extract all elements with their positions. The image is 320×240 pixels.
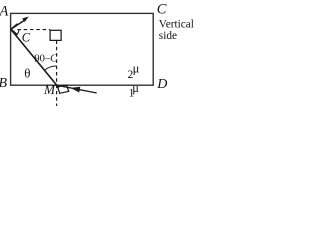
tilted right-angle square below M [58,85,69,93]
ray M to P inside slab, extended slightly past M [11,29,59,88]
svg-text:μ: μ [132,81,139,95]
svg-text:C: C [157,1,167,17]
svg-text:A: A [0,3,9,19]
svg-text:C: C [22,31,31,45]
svg-text:B: B [0,76,8,91]
reflected ray at P going up-right [11,20,25,29]
normal at M (dashed vertical) [56,41,58,107]
angle C arc at P [16,30,19,36]
svg-text:D: D [156,77,167,92]
arrowhead of reflected ray [22,17,29,22]
glass slab rectangle ABCD [11,13,154,85]
svg-text:M: M [43,82,56,97]
angle arc at M for 90-C [44,66,56,70]
svg-text:90–C: 90–C [34,54,58,65]
arrowhead at P pointing left [11,24,17,35]
svg-text:θ: θ [24,65,30,80]
arrowhead of incident ray [71,87,81,93]
normal at P (dashed horizontal) [17,29,50,31]
right angle square marker [50,30,61,40]
svg-text:μ: μ [133,62,140,76]
svg-text:side: side [159,30,177,42]
incident ray arriving at M from lower right [57,85,97,93]
svg-text:Vertical: Vertical [159,19,194,31]
